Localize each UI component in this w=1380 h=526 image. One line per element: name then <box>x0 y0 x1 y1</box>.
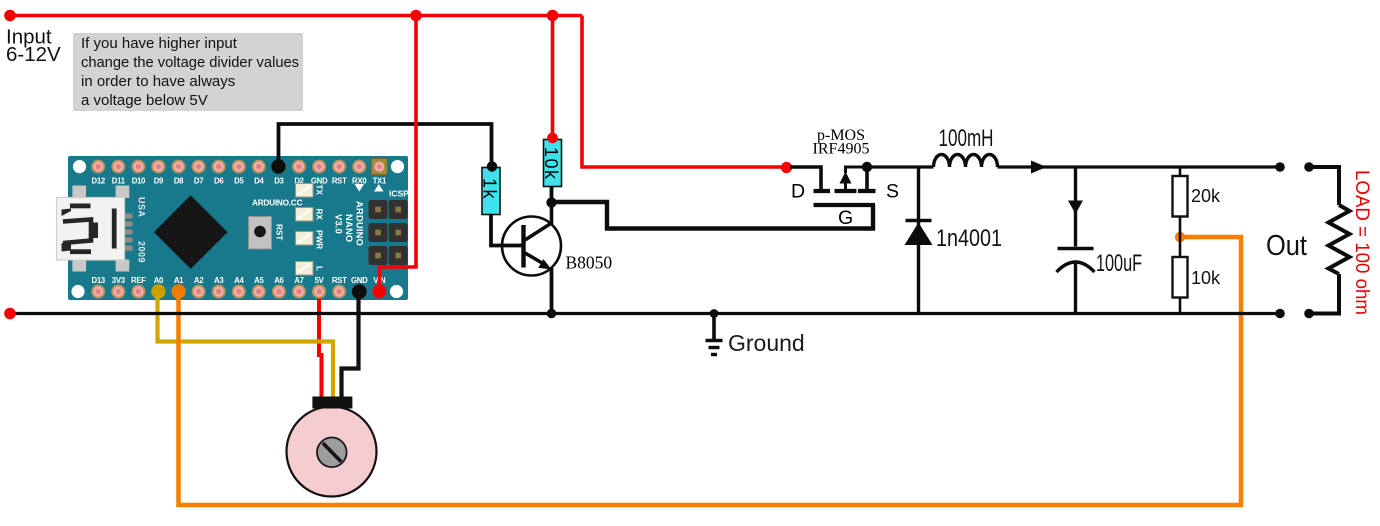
node: output top terminals <box>1304 162 1314 172</box>
svg-text:A5: A5 <box>254 276 264 285</box>
node: A0 yellow dot <box>151 284 165 298</box>
MCU chip diamond <box>154 195 228 269</box>
wire: 10k bottom stub <box>550 186 554 203</box>
svg-text:D4: D4 <box>254 177 264 186</box>
svg-text:A3: A3 <box>214 276 224 285</box>
wire: orange A1 wiper loop <box>179 237 1242 505</box>
svg-text:G: G <box>838 207 853 229</box>
note: grey info box <box>73 33 303 111</box>
inductor L1 100mH <box>934 125 998 167</box>
svg-text:A0: A0 <box>154 276 164 285</box>
svg-text:If you have higher input: If you have higher input <box>81 35 238 52</box>
wire: red to Arduino VIN <box>380 16 417 292</box>
node: D3 pin black dot <box>271 159 285 173</box>
resistor 1k <box>480 161 501 214</box>
svg-text:D5: D5 <box>234 177 244 186</box>
node: input positive terminal dot <box>4 10 16 22</box>
node: emitter junction on ground rail <box>547 309 557 319</box>
wire: red 5V to potentiometer <box>319 292 322 399</box>
svg-text:D7: D7 <box>194 177 203 186</box>
resistor R3 20k (divider top) <box>1173 167 1222 257</box>
node: black dot top of 1k <box>487 161 497 171</box>
svg-text:D11: D11 <box>112 177 126 186</box>
USB connector <box>57 186 133 272</box>
wire: red feed to MOSFET drain <box>582 16 786 168</box>
svg-text:PWR: PWR <box>315 230 324 249</box>
svg-text:100uF: 100uF <box>1096 250 1142 277</box>
wire: top input red rail <box>10 14 582 18</box>
svg-text:Ground: Ground <box>728 330 805 356</box>
svg-text:B8050: B8050 <box>566 253 613 273</box>
svg-text:ARDUINO.CC: ARDUINO.CC <box>252 199 303 208</box>
wire: 1k to transistor base <box>491 214 522 246</box>
svg-text:RST: RST <box>332 276 347 285</box>
svg-text:A2: A2 <box>194 276 204 285</box>
svg-text:TX1: TX1 <box>373 177 387 186</box>
svg-text:D: D <box>791 181 805 203</box>
svg-text:GND: GND <box>351 276 368 285</box>
svg-text:2009: 2009 <box>137 241 147 263</box>
svg-text:L: L <box>315 266 324 271</box>
node: GND black dot <box>352 284 367 299</box>
svg-text:RST: RST <box>332 177 347 186</box>
bottom pin pads row <box>91 285 386 299</box>
svg-text:D8: D8 <box>174 177 184 186</box>
diode D1 1n4001 <box>905 167 1003 314</box>
svg-text:RST: RST <box>275 224 284 240</box>
LED TX <box>296 184 314 198</box>
svg-text:a voltage below 5V: a voltage below 5V <box>81 92 208 109</box>
capacitor C1 100uF <box>1057 167 1143 314</box>
LED PWR <box>296 232 314 246</box>
RX0 down triangle <box>355 184 365 192</box>
wire: current direction arrow on rail <box>1031 161 1047 174</box>
svg-text:change the voltage divider val: change the voltage divider values <box>81 55 299 71</box>
svg-text:10k: 10k <box>541 147 561 181</box>
node: 5V pad overlay <box>312 285 326 299</box>
svg-text:A7: A7 <box>294 276 303 285</box>
svg-text:1n4001: 1n4001 <box>936 225 1002 252</box>
svg-text:A6: A6 <box>274 276 284 285</box>
label: Input 6-12V <box>6 26 61 67</box>
svg-text:REF: REF <box>131 276 146 285</box>
wire: bottom ground rail <box>10 312 1280 315</box>
wire: red drop to 10k resistor <box>551 16 555 138</box>
wire: black GND to potentiometer <box>342 292 359 399</box>
node: junction dot to VIN <box>410 10 422 22</box>
svg-text:D13: D13 <box>91 276 105 285</box>
svg-text:NANO: NANO <box>344 214 355 242</box>
svg-text:3V3: 3V3 <box>112 276 126 285</box>
svg-text:1k: 1k <box>480 178 500 200</box>
svg-text:ICSP: ICSP <box>389 189 409 199</box>
svg-text:A4: A4 <box>234 276 244 285</box>
node: output top-left terminal <box>1275 162 1285 172</box>
mounting holes <box>73 160 86 173</box>
TX1 gold square pad <box>371 159 387 175</box>
node: A1 orange dot <box>171 284 185 298</box>
svg-text:D9: D9 <box>154 177 164 186</box>
RST button <box>249 217 284 250</box>
node: ground symbol junction <box>710 309 719 318</box>
wire: transistor emitter to ground rail <box>550 268 554 314</box>
node: junction dot to 10k <box>547 10 559 22</box>
potentiometer RV1 <box>287 397 377 497</box>
svg-text:5V: 5V <box>315 276 325 285</box>
svg-text:IRF4905: IRF4905 <box>813 141 870 158</box>
svg-text:D3: D3 <box>274 177 284 186</box>
resistor RL load <box>1309 167 1372 315</box>
svg-text:20k: 20k <box>1191 186 1221 206</box>
svg-text:Out: Out <box>1266 230 1307 262</box>
svg-text:RX: RX <box>315 209 324 221</box>
svg-text:6-12V: 6-12V <box>6 43 61 66</box>
wire: D3 signal to 1k <box>279 124 492 167</box>
LED RX <box>296 208 314 222</box>
svg-text:in order to have always: in order to have always <box>81 73 235 90</box>
svg-text:D6: D6 <box>214 177 224 186</box>
svg-text:V3.0: V3.0 <box>334 214 345 234</box>
TX1 up triangle <box>374 184 384 192</box>
svg-text:S: S <box>886 181 899 203</box>
top pin labels <box>91 177 386 186</box>
node: output bottom-left terminal <box>1275 309 1285 319</box>
svg-text:TX: TX <box>315 185 324 196</box>
svg-text:USA: USA <box>137 197 147 218</box>
wire: yellow A0 to potentiometer <box>158 292 334 399</box>
transistor Q1 B8050 <box>502 203 612 276</box>
wire: gate drive to MOSFET G <box>552 202 874 229</box>
svg-text:A1: A1 <box>174 276 184 285</box>
node: orange dot at divider tap <box>1175 232 1185 242</box>
node: red dot top of 10k <box>547 133 558 144</box>
Arduino Nano board <box>57 156 410 300</box>
wire: top black rail MOSFET source to output <box>866 165 1280 168</box>
node: input negative terminal dot <box>4 308 16 320</box>
svg-text:100mH: 100mH <box>939 125 994 152</box>
bottom pin labels <box>91 276 386 285</box>
node: collector-gate junction dot <box>546 197 556 207</box>
node: output bottom right terminal <box>1304 309 1314 319</box>
LED L <box>296 262 314 276</box>
svg-text:D12: D12 <box>91 177 105 186</box>
resistor 10k <box>541 133 562 187</box>
transistor U1 p-MOS IRF4905 <box>790 127 899 229</box>
node: red dot at MOSFET drain <box>781 162 792 173</box>
resistor R4 10k (divider bottom) <box>1173 257 1222 314</box>
svg-text:D10: D10 <box>132 177 146 186</box>
svg-text:LOAD = 100 ohm: LOAD = 100 ohm <box>1351 170 1372 315</box>
ICSP header pins <box>369 200 408 265</box>
ground symbol <box>706 314 805 357</box>
svg-text:ARDUINO: ARDUINO <box>355 201 366 246</box>
svg-text:10k: 10k <box>1191 268 1221 288</box>
node: VIN pin red dot <box>372 285 386 299</box>
top pin pads row <box>91 160 366 174</box>
